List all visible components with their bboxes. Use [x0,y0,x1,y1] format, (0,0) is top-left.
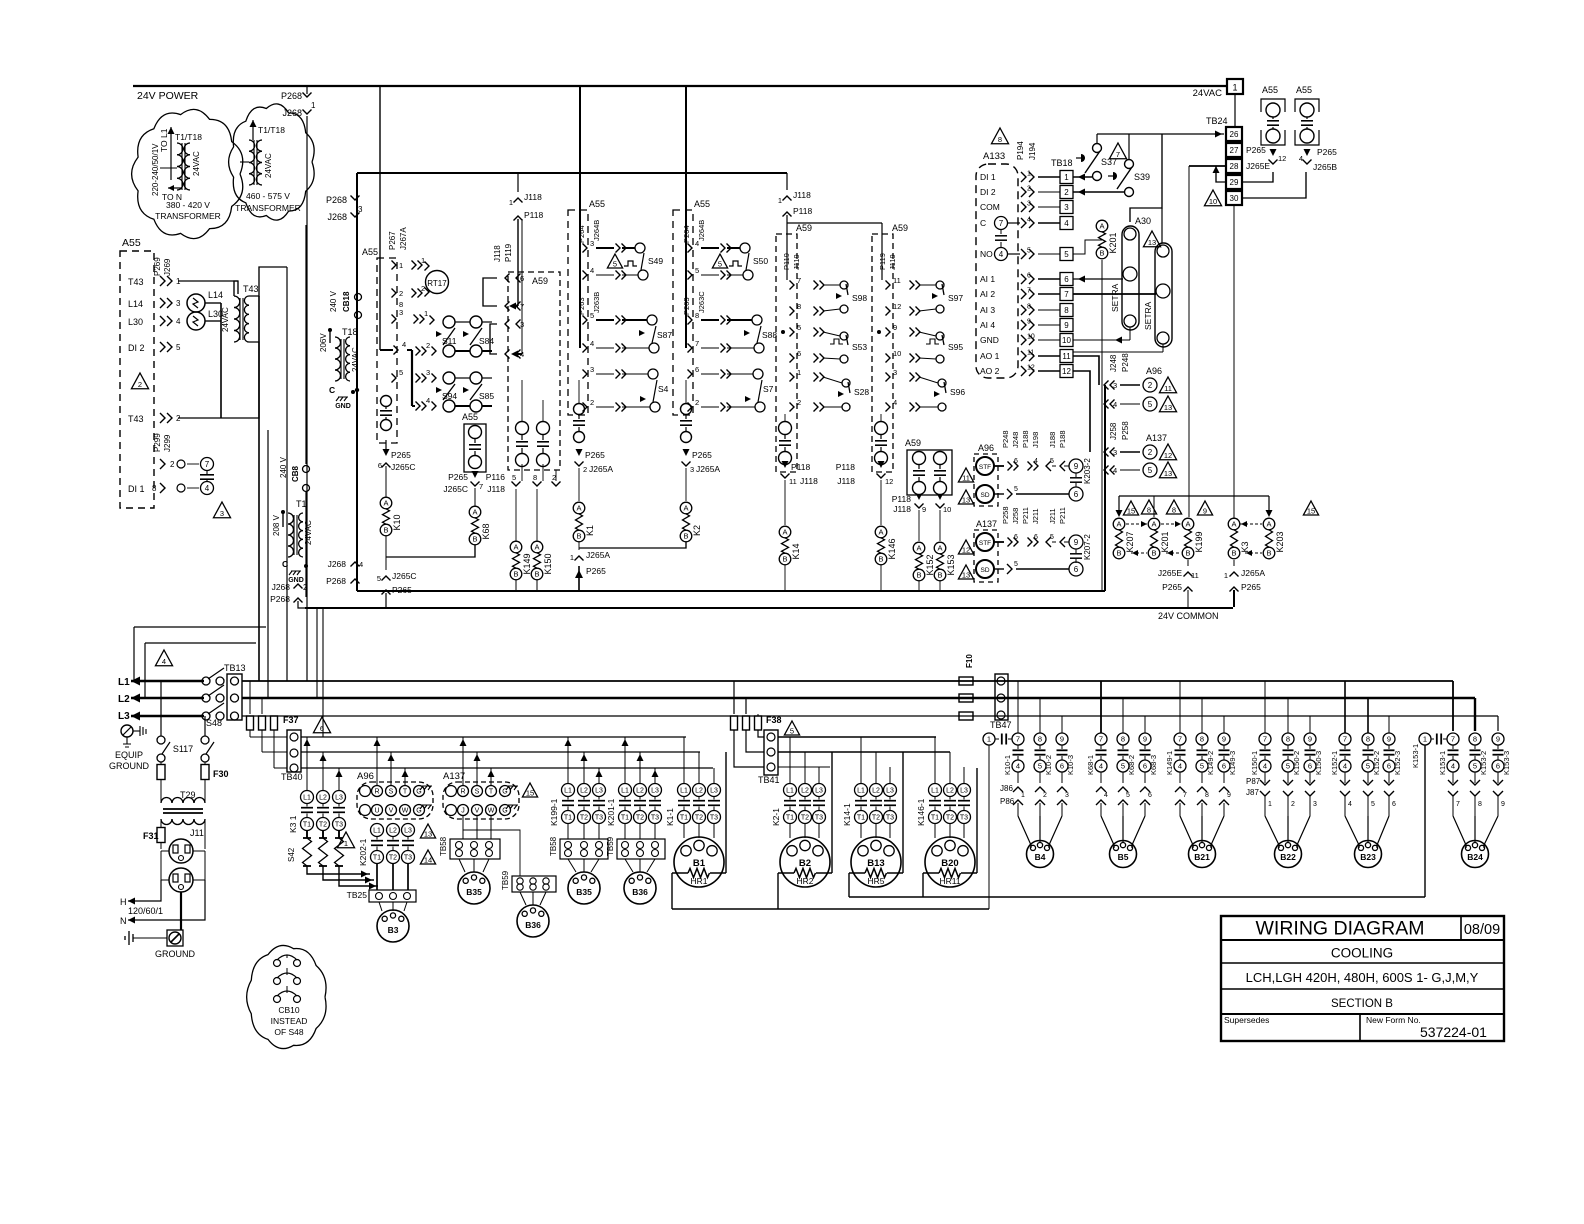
svg-text:P119: P119 [782,253,791,270]
svg-text:J265C: J265C [391,462,416,472]
svg-text:SD: SD [980,492,989,499]
pin 4 [688,244,693,253]
svg-text:L1: L1 [786,788,794,795]
pin 3 [583,244,588,253]
terminal block TB41 [764,730,778,775]
svg-text:11: 11 [1062,352,1071,361]
svg-text:B4: B4 [1035,852,1046,862]
svg-text:L14: L14 [128,299,143,309]
pin 4 [505,350,510,359]
svg-text:OF S48: OF S48 [274,1027,304,1037]
svg-text:L1: L1 [373,828,381,835]
motor B2 with heater HR2 [789,824,791,838]
svg-text:T3: T3 [404,855,412,862]
terminal 2 circled with triangle 11 [1143,378,1157,392]
svg-text:L2: L2 [872,788,880,795]
terminal TB18-7 [1060,288,1073,301]
contactor K146-1 poles [929,784,942,797]
svg-text:A: A [1266,520,1271,529]
svg-text:P265: P265 [586,566,606,576]
svg-text:5: 5 [1473,762,1477,771]
svg-text:5: 5 [1064,250,1069,259]
pin 12 [886,307,891,316]
connector J265C-5/P265 [382,576,391,581]
fuse F37-3 [271,716,278,730]
svg-text:S88: S88 [762,330,777,340]
svg-text:P119: P119 [878,253,887,270]
svg-text:T1: T1 [564,815,572,822]
svg-text:B22: B22 [1280,852,1296,862]
wire loop line bottom [1424,745,1426,897]
svg-text:B35: B35 [576,887,592,897]
svg-text:L3: L3 [404,828,412,835]
svg-text:4: 4 [1299,154,1303,163]
svg-text:J119: J119 [792,254,801,270]
svg-text:12: 12 [885,477,893,486]
svg-text:P263: P263 [577,297,586,315]
svg-text:12: 12 [1027,365,1035,372]
svg-text:K146: K146 [887,538,897,559]
svg-text:8: 8 [533,473,537,482]
relay coil K14 [784,480,786,525]
pin 5 [688,271,693,280]
svg-text:24VAC: 24VAC [264,153,273,178]
svg-text:S84: S84 [479,336,494,346]
svg-text:6: 6 [1034,534,1038,541]
svg-text:4: 4 [426,396,430,405]
terminal 5 circled with triangle 13 [1143,397,1157,411]
warning triangle 10 [1204,190,1221,206]
svg-text:T1: T1 [373,855,381,862]
svg-text:B3: B3 [388,925,399,935]
svg-text:6: 6 [695,365,699,374]
svg-text:T: T [489,789,494,796]
svg-text:B: B [1116,549,1121,558]
svg-text:K203-2: K203-2 [1083,458,1092,484]
svg-text:B23: B23 [1360,852,1376,862]
svg-text:P265: P265 [1246,145,1266,155]
svg-text:8: 8 [998,135,1002,144]
svg-text:7: 7 [1099,735,1103,744]
warning triangle 15b [1303,501,1318,515]
svg-text:A137: A137 [443,771,465,782]
svg-text:5: 5 [1027,248,1031,255]
svg-text:6: 6 [1014,458,1018,465]
switch S94 [443,372,455,384]
wire J11 to ground [180,892,182,930]
svg-text:K201: K201 [1108,232,1118,253]
svg-text:B: B [513,570,518,579]
svg-text:CB10: CB10 [278,1005,300,1015]
svg-text:5: 5 [797,323,801,332]
svg-text:6: 6 [1496,762,1500,771]
svg-text:A96: A96 [1146,366,1162,376]
svg-text:11: 11 [789,477,797,486]
svg-text:J268: J268 [272,582,291,592]
svg-text:9: 9 [1074,462,1079,471]
svg-text:J265E: J265E [1246,161,1270,171]
svg-text:8: 8 [1027,304,1031,311]
svg-text:12: 12 [1278,154,1286,163]
svg-text:J265B: J265B [1313,162,1337,172]
svg-text:P86: P86 [1000,797,1015,806]
svg-text:T1/T18: T1/T18 [258,125,285,135]
relay coil K153 [939,510,941,541]
bus TB41-3 [778,766,830,768]
switch S96 [938,379,946,387]
wire K10 to J265C-5 [385,536,387,570]
svg-text:28: 28 [1230,162,1239,171]
svg-text:INSTEAD: INSTEAD [271,1016,308,1026]
pin 4b [416,402,421,411]
svg-text:2: 2 [590,398,594,407]
svg-text:8: 8 [1205,792,1209,799]
svg-text:K153-1: K153-1 [1438,751,1447,775]
svg-text:3: 3 [220,509,224,518]
svg-text:6: 6 [378,461,382,470]
solenoid valve (K146 branch) [875,422,888,435]
svg-text:B24: B24 [1467,852,1483,862]
motor B36b [625,859,633,872]
svg-text:T43: T43 [128,277,144,287]
svg-text:K3: K3 [1240,541,1250,552]
svg-text:9: 9 [1203,506,1207,515]
svg-text:6: 6 [1308,762,1312,771]
svg-text:1: 1 [424,309,428,318]
svg-text:L2: L2 [580,788,588,795]
wire L2 to upper rail [144,643,146,698]
svg-text:J211: J211 [1031,508,1040,524]
wire S42 to TB25 [307,866,370,874]
svg-text:STF: STF [979,540,991,547]
svg-text:J263C: J263C [697,291,706,313]
motor B36 [520,892,526,905]
solenoid valve A55-1 [381,396,392,407]
svg-text:K201-1: K201-1 [606,798,616,826]
svg-text:B36: B36 [525,920,541,930]
svg-text:S49: S49 [648,256,663,266]
svg-text:2: 2 [303,583,308,592]
svg-text:NO: NO [980,249,993,259]
svg-text:TB25: TB25 [347,890,368,900]
svg-text:K203: K203 [1275,531,1285,552]
warning triangle 12b [958,540,973,554]
connector P265/J265A-3 [683,449,690,456]
svg-text:24V POWER: 24V POWER [137,90,199,102]
ground stake symbol [125,931,133,945]
svg-text:K199: K199 [1194,531,1204,552]
svg-text:S7: S7 [763,384,774,394]
svg-text:B: B [1231,549,1236,558]
pin 9 [886,328,891,337]
svg-text:C: C [329,385,335,395]
chain SD 137 [994,568,1004,570]
wire L1 rail [242,680,1453,682]
svg-text:L2: L2 [636,788,644,795]
svg-text:A: A [1116,520,1121,529]
svg-text:4: 4 [402,340,406,349]
svg-text:TB40: TB40 [281,772,303,782]
svg-text:DI 2: DI 2 [128,343,145,353]
svg-text:T2: T2 [580,815,588,822]
switch S7 [753,369,763,379]
svg-text:P268: P268 [326,576,346,586]
svg-text:2: 2 [583,465,587,474]
svg-text:S97: S97 [948,293,963,303]
svg-text:K146-1: K146-1 [916,798,926,826]
svg-text:A55: A55 [462,412,478,422]
relay coil K201b [1148,518,1160,530]
svg-text:J299: J299 [163,434,172,452]
title block [1221,916,1504,1041]
switch S50 [740,243,750,253]
contactor K1-1 poles [678,784,691,797]
svg-text:5: 5 [1286,762,1290,771]
svg-text:L2: L2 [389,828,397,835]
svg-text:K1-1: K1-1 [665,808,675,826]
svg-text:24VAC: 24VAC [351,347,360,372]
svg-text:8: 8 [1473,735,1477,744]
svg-text:SETRA: SETRA [1110,283,1120,312]
switch S117 [160,681,162,736]
svg-text:L3: L3 [815,788,823,795]
svg-text:TB47: TB47 [990,720,1012,730]
wire left rail y=627 [134,626,266,628]
wire S39 to TB18-2 [1073,191,1124,193]
svg-text:1: 1 [797,368,801,377]
svg-text:P265: P265 [391,450,411,460]
svg-text:W: W [402,808,409,815]
wire rail x=268 down [267,430,269,698]
svg-text:V: V [475,808,480,815]
svg-text:A: A [683,504,688,513]
svg-text:1: 1 [1423,735,1427,744]
svg-text:4: 4 [359,560,363,569]
svg-text:2: 2 [426,341,430,350]
pin 3 [392,315,397,324]
svg-text:10: 10 [943,505,951,514]
svg-text:J268: J268 [327,212,347,222]
svg-text:3: 3 [1064,203,1069,212]
svg-text:3: 3 [590,239,594,248]
svg-text:9: 9 [1074,538,1079,547]
svg-text:T2: T2 [946,815,954,822]
svg-text:14: 14 [424,855,432,864]
svg-text:P265: P265 [585,450,605,460]
svg-text:4: 4 [590,266,594,275]
svg-text:26: 26 [1230,130,1239,139]
svg-text:K149-1: K149-1 [1165,751,1174,775]
fuse (left) [160,762,162,765]
svg-text:K153-3: K153-3 [1502,751,1511,775]
svg-text:A96: A96 [978,443,994,453]
svg-text:8: 8 [1172,505,1176,514]
terminal 5 circled with triangle 13b [1143,463,1157,477]
svg-text:A: A [1099,222,1104,231]
svg-text:3: 3 [176,299,181,308]
svg-text:T3: T3 [595,815,603,822]
svg-text:3: 3 [426,368,430,377]
svg-text:K153: K153 [946,554,956,575]
svg-text:8: 8 [1200,735,1204,744]
svg-text:HR5: HR5 [867,876,884,886]
svg-text:B: B [683,532,688,541]
terminal TB24-28 [1226,159,1242,173]
wire B1 HR1 right up [725,752,727,873]
wire from terminal 1 down to TB24 [1234,94,1236,127]
svg-text:8: 8 [1286,735,1290,744]
wire B20 HR11 right up [976,768,978,873]
wire T43 loop to 240V rail [234,281,238,296]
fan group K10 / motor B4 [983,733,995,745]
svg-text:P269: P269 [153,257,162,276]
terminal 2 circled with triangle 12 [1143,445,1157,459]
svg-text:L3: L3 [710,788,718,795]
pin 5 [790,328,795,337]
svg-text:5: 5 [790,726,794,735]
svg-text:A55: A55 [362,247,378,257]
svg-text:5: 5 [1371,801,1375,808]
svg-text:L1: L1 [564,788,572,795]
svg-text:J263B: J263B [592,292,601,313]
svg-text:B2: B2 [799,858,811,869]
svg-text:6: 6 [520,274,524,283]
svg-text:K152-1: K152-1 [1330,751,1339,775]
svg-text:P258: P258 [1121,421,1130,440]
wire TB24-29 to A55 valve [1242,172,1273,182]
svg-text:9: 9 [1227,792,1231,799]
svg-text:J198: J198 [1031,432,1040,448]
svg-text:P265: P265 [1162,582,1182,592]
svg-text:9: 9 [1060,735,1064,744]
svg-text:1: 1 [1232,83,1237,93]
svg-text:7: 7 [1116,150,1120,159]
svg-text:TB24: TB24 [1206,116,1228,126]
svg-text:T3: T3 [335,822,343,829]
svg-text:K150-3: K150-3 [1314,751,1323,775]
wire rail drops to B24 group [1452,681,1454,731]
solenoid valve (K2 branch) [681,404,692,415]
svg-text:T43: T43 [128,414,144,424]
connector P118/J118-11 [782,461,789,468]
svg-text:7: 7 [1064,290,1069,299]
svg-text:P265: P265 [448,472,468,482]
svg-text:T: T [403,789,408,796]
svg-text:4: 4 [893,398,897,407]
pin 7 [688,344,693,353]
svg-text:T2: T2 [319,822,327,829]
svg-text:5: 5 [176,343,181,352]
svg-text:2: 2 [170,460,175,469]
relay coil K201 (A30) [1096,220,1108,232]
connector J265E-11/P265 [1187,560,1189,566]
disconnect switch S48 [202,677,210,685]
wire K1/K2 common [579,542,686,548]
svg-text:4: 4 [1027,217,1031,224]
solenoid valve J118-b [537,422,550,435]
svg-text:15: 15 [1307,506,1315,515]
svg-text:4: 4 [1113,466,1117,475]
svg-text:J248: J248 [1109,354,1118,372]
svg-text:9: 9 [893,323,897,332]
svg-text:R: R [460,789,465,796]
wire B2 HR2 right up [831,752,833,873]
svg-text:208 V: 208 V [272,514,281,536]
contactor K201-1 poles [619,784,632,797]
svg-text:8: 8 [797,302,801,311]
svg-text:2: 2 [797,398,801,407]
svg-text:P265: P265 [692,450,712,460]
capacitor with terminals 7/4 [187,463,199,465]
svg-text:L3: L3 [960,788,968,795]
pin 8 [688,316,693,325]
pin 5 [583,316,588,325]
wire to SETRA from bus [1130,134,1162,222]
fan group K149 / motor B21 [1174,733,1186,745]
switch S4 [648,369,658,379]
motor B13 with heater HR5 [860,824,862,838]
connector J118/P118 pin 1 (x=518) [517,173,519,192]
svg-text:12: 12 [1164,451,1172,460]
terminal TB18-9 [1060,319,1073,332]
svg-text:4: 4 [1034,458,1038,465]
motor B20 with heater HR11 [934,824,936,838]
svg-text:P118: P118 [524,210,543,220]
svg-text:A137: A137 [1146,433,1167,443]
svg-text:9: 9 [1501,801,1505,808]
svg-text:1: 1 [509,198,513,207]
svg-text:7: 7 [695,339,699,348]
fuse F31 [157,828,165,843]
svg-text:A: A [878,528,883,537]
svg-text:S: S [389,789,394,796]
svg-text:15: 15 [526,788,534,797]
svg-text:8: 8 [399,300,403,309]
svg-text:K2: K2 [692,525,702,536]
wire A55 pin1 to T43 transformer [178,281,238,294]
svg-text:7: 7 [1178,735,1182,744]
svg-text:8: 8 [1147,505,1151,514]
svg-text:B: B [1266,549,1271,558]
svg-text:4: 4 [1016,762,1020,771]
circuit breaker CB8 [305,225,307,464]
svg-text:4: 4 [1451,762,1455,771]
svg-text:4: 4 [590,339,594,348]
svg-text:COOLING: COOLING [1331,946,1393,961]
terminal TB18-8 [1060,304,1073,317]
wire rail x=287 down [286,267,288,681]
svg-text:CB18: CB18 [342,291,351,312]
fuse F38-2 [745,698,747,714]
solenoid valve J118-a [516,422,529,435]
svg-text:B21: B21 [1194,852,1210,862]
svg-text:P211: P211 [1021,507,1030,524]
svg-text:P118: P118 [892,494,911,504]
fuse F37-2 [261,698,263,714]
svg-text:A55: A55 [122,237,141,249]
terminal TB24-30 [1226,191,1242,205]
svg-text:T3: T3 [886,815,894,822]
svg-text:DI 1: DI 1 [128,484,145,494]
svg-text:P263: P263 [682,297,691,315]
svg-text:K201: K201 [1160,531,1170,552]
svg-text:1: 1 [987,735,991,744]
svg-text:29: 29 [1230,178,1239,187]
svg-text:1: 1 [421,256,425,265]
svg-text:8: 8 [1121,735,1125,744]
svg-text:AI 3: AI 3 [980,305,995,315]
wire 240V rail x=259 down [258,296,260,681]
